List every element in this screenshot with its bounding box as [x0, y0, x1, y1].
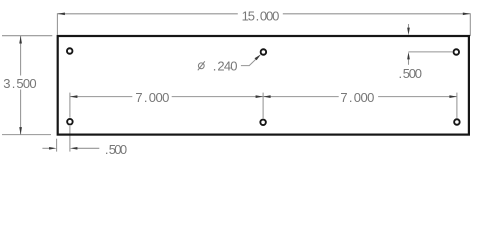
- svg-text:.500: .500: [105, 142, 127, 157]
- svg-text:7.000: 7.000: [135, 90, 169, 105]
- svg-text:7.000: 7.000: [340, 90, 374, 105]
- svg-text:15.000: 15.000: [242, 9, 280, 24]
- svg-text:3.500: 3.500: [3, 76, 36, 91]
- svg-text:.240: .240: [213, 59, 238, 74]
- svg-text:.500: .500: [399, 66, 423, 81]
